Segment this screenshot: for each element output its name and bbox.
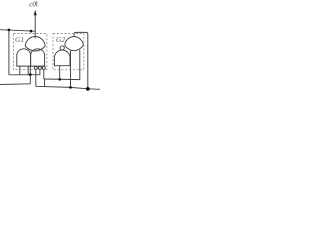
G2 dashed box bbox=[53, 34, 84, 70]
node junction J4 bbox=[58, 78, 61, 81]
wire: U2a input down to W5 bbox=[70, 51, 72, 88]
node junction J2 bbox=[30, 30, 33, 33]
bubble A2 input 4 bbox=[42, 66, 45, 69]
node junction J1 bbox=[8, 29, 11, 32]
wire: A2 input 1 down through junction bbox=[29, 66, 31, 84]
wire W1 horizontal top bbox=[0, 30, 35, 32]
wire jog W4 to W5 bbox=[44, 79, 46, 86]
G1 dashed box bbox=[13, 34, 47, 70]
svg-text:c0: c0 bbox=[29, 1, 36, 9]
wire: bubble2 stub bbox=[39, 69, 41, 74]
node junction J7 bbox=[86, 87, 90, 91]
gate G1 OR top bbox=[25, 37, 45, 47]
svg-text:G2: G2 bbox=[56, 35, 65, 44]
wire: A1 input stub left bbox=[19, 66, 21, 75]
wire: bubble1 line down to W5 bbox=[35, 69, 37, 86]
node junction J6 bbox=[69, 86, 72, 89]
gate G2 OR upper (U2a) bbox=[65, 37, 83, 46]
bubble A2 input 2 bbox=[34, 66, 37, 69]
gate G2 AND lower (U2b) bbox=[54, 50, 70, 66]
svg-text:G1: G1 bbox=[15, 35, 24, 44]
wire: G2 output feedback loop bbox=[74, 32, 88, 89]
label tick bbox=[36, 1, 38, 6]
bubble A2 input 3 bbox=[38, 66, 41, 69]
wire: left feedback vertical bbox=[8, 30, 10, 75]
wire: A1 input stub right bbox=[27, 66, 29, 75]
wire: U2b input stub to W4 bbox=[59, 66, 61, 80]
arrowhead bbox=[34, 10, 37, 15]
wire: G1 output stub bbox=[34, 31, 36, 38]
gate G1 AND left bbox=[17, 49, 31, 66]
wire W4 mid bus bbox=[44, 50, 80, 80]
node junction J3 bbox=[29, 73, 32, 76]
wire: output arrow up bbox=[34, 15, 36, 31]
wire W3 bottom left bbox=[0, 83, 30, 86]
gate G1 AND right bbox=[31, 49, 45, 66]
wire: bubble3 line down to W4 bbox=[43, 69, 45, 79]
wire W5 bottom bus bbox=[36, 86, 100, 89]
wire W2 horizontal bbox=[9, 74, 40, 76]
bubble U2b output bbox=[60, 46, 64, 50]
